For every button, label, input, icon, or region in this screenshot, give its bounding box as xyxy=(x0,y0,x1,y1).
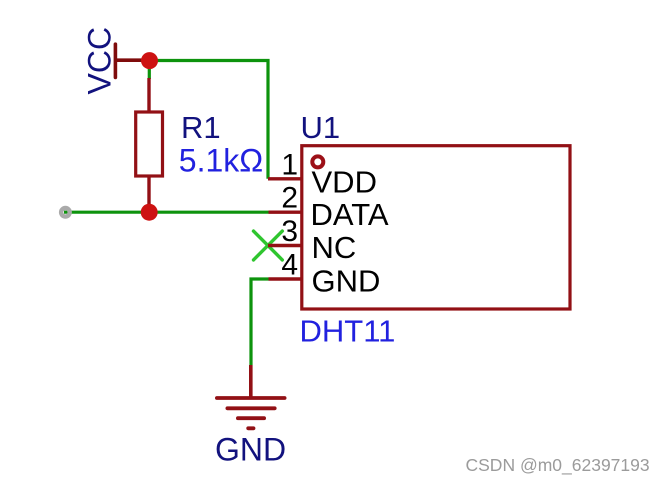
pin-1 indicator circle xyxy=(312,156,323,167)
svg-text:5.1kΩ: 5.1kΩ xyxy=(179,142,263,178)
svg-text:VDD: VDD xyxy=(312,165,377,200)
ground symbol xyxy=(217,365,285,428)
svg-text:VCC: VCC xyxy=(82,27,118,95)
junction dot (VCC node) xyxy=(141,52,158,69)
svg-text:U1: U1 xyxy=(301,110,341,145)
svg-text:DHT11: DHT11 xyxy=(300,314,396,349)
power flag VCC xyxy=(82,27,151,95)
pin 1 stub xyxy=(268,177,303,180)
wire VCC to pin1 xyxy=(150,61,268,179)
svg-text:CSDN @m0_62397193: CSDN @m0_62397193 xyxy=(466,455,650,476)
svg-text:1: 1 xyxy=(281,148,298,181)
pin 2 stub xyxy=(269,210,304,213)
junction dot (DATA node) xyxy=(141,204,158,221)
resistor R1 xyxy=(136,78,163,212)
wire junction stub down xyxy=(148,61,151,80)
svg-text:4: 4 xyxy=(281,249,298,282)
open pin end (gray) xyxy=(61,208,70,217)
svg-text:GND: GND xyxy=(215,432,286,468)
svg-text:NC: NC xyxy=(312,230,357,265)
svg-text:GND: GND xyxy=(312,264,381,299)
svg-text:R1: R1 xyxy=(181,110,221,145)
pin 4 stub xyxy=(269,277,304,280)
svg-text:DATA: DATA xyxy=(311,197,389,232)
wire pin4 to ground xyxy=(251,279,269,365)
no-connect X on pin 3 xyxy=(254,231,283,260)
IC U1 box xyxy=(302,146,570,309)
wire DATA horizontal xyxy=(64,211,269,214)
svg-text:3: 3 xyxy=(281,215,298,248)
svg-text:2: 2 xyxy=(281,182,298,215)
pin 3 stub xyxy=(268,244,303,247)
